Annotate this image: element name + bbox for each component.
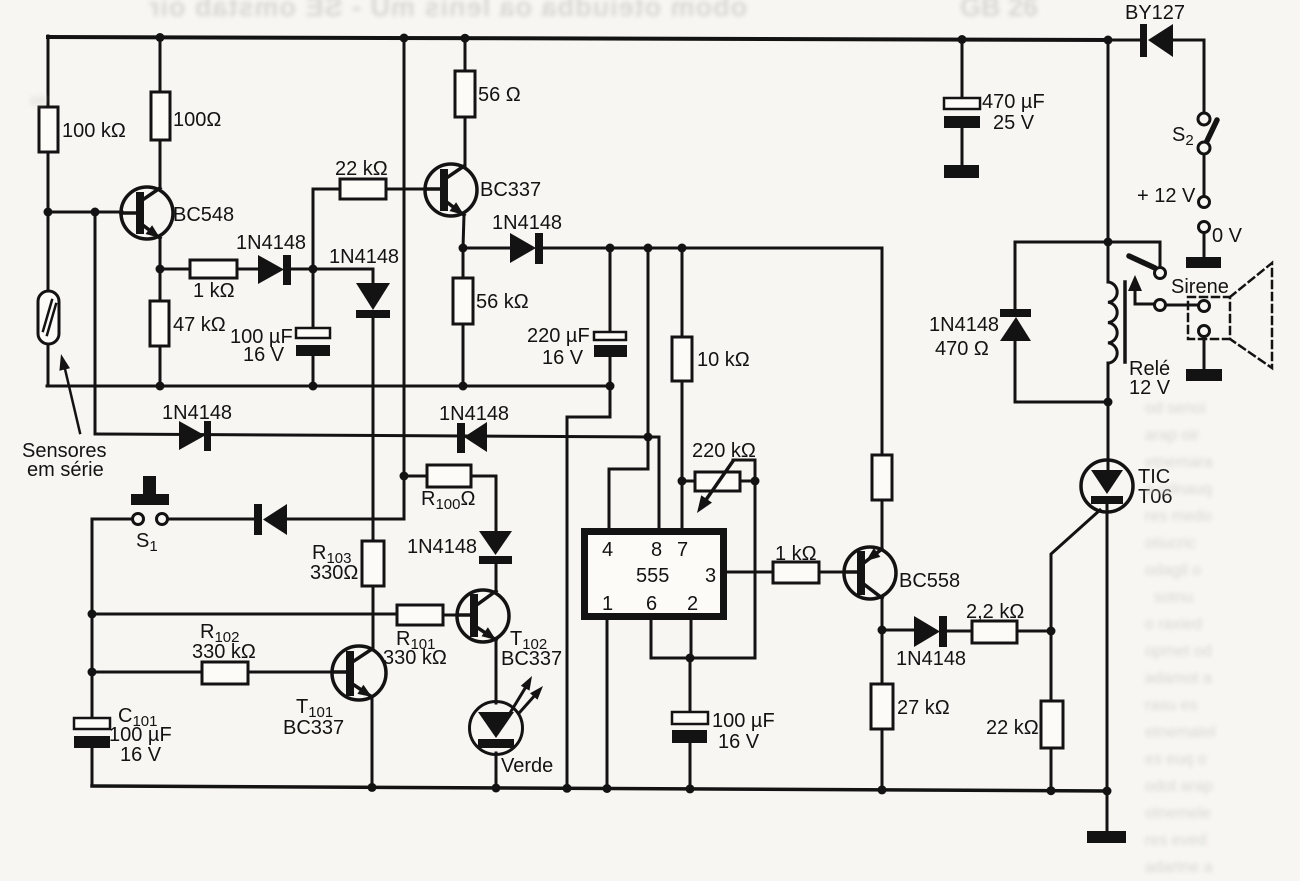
svg-text:555: 555 — [636, 565, 669, 587]
wire top supply rail — [48, 37, 1110, 40]
wire relay flyback diode bottom — [1015, 341, 1108, 402]
relay contact lever — [1129, 256, 1155, 268]
resistor 56 kOhm — [453, 278, 473, 324]
svg-text:BC558: BC558 — [899, 570, 960, 592]
wire 22k left riser — [313, 189, 340, 269]
wire left column top (100k feed) — [47, 36, 50, 107]
relay contact terminals — [1155, 268, 1166, 311]
wire left column mid (100k to sensor) — [47, 152, 50, 291]
resistor 2,2 kOhm — [972, 621, 1017, 643]
junction diode out node x313 — [309, 265, 318, 274]
wire 100ohm to BC548 collector — [159, 140, 162, 190]
transistor BC558 — [844, 547, 896, 599]
wire x92 left column — [91, 519, 94, 786]
switch S2 — [1198, 113, 1217, 154]
wire 1k to BC558 base — [819, 571, 845, 574]
diode 1N4148 after 1k — [258, 255, 291, 285]
wire node to vertical diode — [313, 269, 373, 283]
wire R100 leads — [404, 476, 496, 531]
junction bottom rail x373 — [368, 783, 377, 792]
svg-text:25 V: 25 V — [993, 112, 1035, 134]
wire node to cap 100uF-16V — [689, 658, 692, 712]
svg-text:R100Ω: R100Ω — [421, 488, 475, 513]
diode BY127 — [1140, 24, 1173, 57]
resistor 1 kOhm (555 output) — [773, 562, 819, 583]
junction y248 x648 — [644, 244, 653, 253]
wire 470uF to ground symbol — [961, 128, 964, 166]
resistor R101 330 kOhm — [397, 605, 443, 625]
relay coil — [1108, 282, 1125, 363]
svg-text:1N4148: 1N4148 — [929, 314, 999, 336]
wire 22k right top — [1050, 631, 1053, 701]
junction mid rail x610 — [606, 382, 615, 391]
wire 10k to pot node — [681, 381, 684, 481]
resistor 10 kOhm — [672, 337, 692, 381]
arrow sensores em serie — [59, 354, 80, 433]
junction y248 x610 — [606, 244, 615, 253]
wire y630 line segments — [882, 630, 1051, 631]
resistor 1 kOhm (BC548 emitter) — [190, 260, 237, 278]
junction mid rail x160 — [156, 382, 165, 391]
svg-text:16 V: 16 V — [542, 347, 584, 369]
capacitor 470uF 25V — [944, 98, 980, 128]
svg-text:BC548: BC548 — [173, 204, 234, 226]
junction mid rail x463 — [459, 382, 468, 391]
junction top rail x962 — [958, 35, 967, 44]
svg-text:Verde: Verde — [501, 755, 553, 777]
wire pin2 down — [690, 620, 693, 658]
wire LED cathode to rail — [495, 753, 498, 789]
svg-text:330 kΩ: 330 kΩ — [192, 641, 256, 663]
junction relay feed x1108 — [1104, 238, 1113, 247]
svg-text:S1: S1 — [136, 530, 158, 555]
transistor T101 BC337 — [332, 646, 386, 700]
svg-text:1N4148: 1N4148 — [896, 648, 966, 670]
wire pot right to pin2 node — [690, 481, 755, 658]
svg-text:BC337: BC337 — [501, 648, 562, 670]
junction base line x95 — [91, 208, 100, 217]
wire node to pin8 — [648, 437, 659, 528]
junction mid rail x313 — [309, 382, 318, 391]
wire BC548 emitter drop — [159, 238, 162, 269]
junction y248 x463 — [459, 244, 468, 253]
ground symbol sirene — [1186, 369, 1222, 381]
ground symbol 0V — [1186, 257, 1221, 268]
resistor 47 kOhm — [150, 301, 169, 346]
faint bleed-through paragraph right margin (decorative) — [1145, 395, 1215, 881]
svg-text:1N4148: 1N4148 — [236, 232, 306, 254]
thyristor TIC T06 — [1081, 460, 1133, 512]
wire ground step x610 to x567 — [567, 386, 610, 789]
resistor R103 330 Ohm — [362, 541, 384, 586]
wire left column below sensor — [47, 344, 50, 386]
sensor reed capsule — [38, 291, 59, 344]
junction bottom rail x882 — [878, 785, 887, 794]
transistor BC548 — [121, 187, 173, 239]
wire sirene lower terminal to ground — [1203, 336, 1206, 370]
wire 56k bottom — [462, 324, 465, 386]
wire 56ohm to BC337 collector — [464, 117, 467, 167]
resistor 100 Ohm — [151, 92, 170, 140]
wire relay top contact feed — [1015, 242, 1160, 268]
svg-text:1N4148: 1N4148 — [439, 403, 509, 425]
diode 1N4148 BC558 output — [914, 616, 947, 647]
svg-text:BC337: BC337 — [283, 717, 344, 739]
svg-text:100 µF: 100 µF — [109, 724, 172, 746]
wire pin6 jog — [651, 620, 690, 658]
wire S2 to +12V terminal — [1203, 154, 1206, 196]
junction x92 y672 — [88, 668, 97, 677]
svg-text:7: 7 — [677, 539, 688, 561]
junction base line x48 — [44, 208, 53, 217]
svg-text:100 µF: 100 µF — [712, 710, 775, 732]
svg-text:22 kΩ: 22 kΩ — [986, 717, 1039, 739]
svg-text:3: 3 — [705, 565, 716, 587]
IC 555 box — [585, 532, 724, 617]
junction pot right — [751, 477, 760, 486]
wire S1 left lead — [92, 518, 133, 521]
svg-text:1 kΩ: 1 kΩ — [775, 543, 817, 565]
wire relay coil bottom — [1107, 363, 1110, 402]
junction top rail x404 — [400, 34, 409, 43]
wire R101 line y614 — [92, 614, 458, 615]
wire 47k bottom — [159, 346, 162, 386]
wire BC337 emitter drop — [463, 215, 464, 248]
diode 1N4148 latch line pointing left — [457, 422, 487, 453]
svg-text:0 V: 0 V — [1212, 225, 1243, 247]
junction bottom rail x607 — [603, 784, 612, 793]
wire 220uF bottom — [609, 357, 612, 386]
svg-text:330 kΩ: 330 kΩ — [383, 647, 447, 669]
junction bottom rail x567 — [563, 784, 572, 793]
wire TIC cathode to rail — [1106, 511, 1109, 791]
svg-text:100Ω: 100Ω — [173, 109, 221, 131]
wire T101 emitter to ground rail — [371, 697, 374, 788]
resistor 22 kOhm — [340, 179, 386, 199]
wire 220uF top — [609, 248, 612, 332]
wire diode to T102 collector — [495, 562, 498, 591]
svg-text:BC337: BC337 — [480, 179, 541, 201]
svg-text:1 kΩ: 1 kΩ — [193, 280, 235, 302]
junction pin2 node — [686, 654, 695, 663]
svg-text:em série: em série — [27, 459, 104, 481]
wire 470uF top feed — [961, 39, 964, 98]
svg-text:1N4148: 1N4148 — [329, 246, 399, 268]
svg-text:1N4148: 1N4148 — [407, 536, 477, 558]
svg-text:470 Ω: 470 Ω — [935, 338, 989, 360]
diode 1N4148 after BC337 — [510, 233, 543, 264]
wire 47k top — [159, 269, 162, 301]
wire cap bottom to rail — [689, 743, 692, 790]
wire mid ground rail — [47, 385, 610, 388]
capacitor 220uF 16V — [594, 332, 627, 357]
junction 2k2 gate node — [1047, 627, 1056, 636]
wire pin1 to ground — [606, 620, 609, 790]
potentiometer wiper arrow — [697, 461, 733, 513]
wire x1108 from BY127 node down — [1107, 40, 1110, 242]
ground symbol 470uF — [944, 165, 979, 178]
resistor BC558 emitter — [872, 455, 892, 500]
svg-text:56 kΩ: 56 kΩ — [476, 291, 529, 313]
svg-text:2,2 kΩ: 2,2 kΩ — [966, 601, 1024, 623]
junction bottom rail x1051 — [1047, 786, 1056, 795]
junction x92 y614 — [88, 610, 97, 619]
svg-text:2: 2 — [687, 593, 698, 615]
junction y437 x648 — [644, 433, 653, 442]
capacitor 100uF 16V (latch) — [296, 328, 330, 356]
wire 27k top — [881, 630, 884, 684]
wire 22k right bottom — [1050, 748, 1053, 791]
wire relay flyback diode top — [1014, 242, 1017, 309]
junction top rail x1108 — [1104, 36, 1113, 45]
wire BY127 anode to S2 — [1173, 40, 1204, 113]
wire 56ohm top — [464, 36, 467, 71]
diode 1N4148 vertical x373 — [356, 283, 390, 318]
svg-text:+ 12 V: + 12 V — [1137, 185, 1196, 207]
wire pot right lead — [740, 480, 755, 483]
wire T102 emitter to LED — [495, 641, 498, 703]
svg-text:470 µF: 470 µF — [982, 91, 1045, 113]
wire 56k top — [462, 248, 465, 278]
wire node to cap100uF — [312, 269, 315, 328]
wire pot node to pin7 — [681, 481, 684, 528]
svg-text:220 µF: 220 µF — [527, 325, 590, 347]
junction bottom rail x496 — [492, 784, 501, 793]
svg-text:220 kΩ: 220 kΩ — [692, 440, 756, 462]
relay armature arrow — [1128, 275, 1142, 291]
sirene speaker — [1188, 263, 1272, 368]
svg-text:8: 8 — [651, 539, 662, 561]
wire 22k to BC337 base — [386, 188, 427, 191]
wire R103 to T101 collector — [372, 586, 375, 650]
resistor R100 — [427, 465, 471, 487]
diode S1 line pointing left — [254, 504, 287, 535]
capacitor 100uF 16V (555 pin2) — [672, 712, 708, 743]
svg-text:1: 1 — [602, 593, 613, 615]
wire sensor diode line y435 — [95, 434, 649, 437]
wire S1 to diode — [168, 518, 257, 521]
junction bottom rail x690 — [686, 784, 695, 793]
wire relay coil top feed — [1107, 242, 1110, 282]
capacitor C101 100uF 16V — [74, 718, 110, 748]
wire relay armature link — [1135, 291, 1155, 304]
resistor 22 kOhm (gate) — [1041, 701, 1063, 748]
junction pot left pin7 — [678, 477, 687, 486]
wire vertical diode to R103 — [372, 317, 375, 541]
wire 1k line segments — [160, 268, 313, 271]
wire 100ohm top feed — [159, 36, 162, 92]
potentiometer 220 kOhm body — [695, 472, 740, 491]
svg-text:100 kΩ: 100 kΩ — [62, 120, 126, 142]
svg-text:1N4148: 1N4148 — [162, 402, 232, 424]
wire pot wiper link — [733, 460, 755, 481]
wire node step to pin4 — [609, 437, 648, 528]
svg-text:56 Ω: 56 Ω — [478, 84, 521, 106]
junction relay coil bottom — [1104, 398, 1113, 407]
wire pin3 output — [727, 571, 773, 574]
push button S1 — [131, 476, 169, 525]
transistor T102 BC337 — [457, 590, 509, 642]
ground symbol main rail — [1087, 831, 1126, 843]
svg-text:330Ω: 330Ω — [310, 562, 358, 584]
svg-text:16 V: 16 V — [243, 344, 285, 366]
wire R102 line y672 — [92, 671, 333, 674]
terminal +12V — [1199, 197, 1210, 208]
svg-text:S2: S2 — [1172, 124, 1194, 149]
terminal 0V — [1199, 222, 1210, 233]
junction top rail x160 — [156, 33, 165, 42]
junction bottom rail x1107 — [1103, 787, 1112, 796]
transistor BC337 (latch) — [425, 164, 477, 216]
diode 1N4148 sensor line — [179, 421, 211, 451]
wire x404 long drop — [403, 37, 406, 519]
svg-text:47 kΩ: 47 kΩ — [173, 314, 226, 336]
diode 1N4148 relay flyback — [1000, 309, 1031, 341]
wire TIC gate — [1051, 510, 1100, 631]
svg-text:6: 6 — [646, 593, 657, 615]
junction top rail x465 — [461, 34, 470, 43]
wire relay NO contact to sirene — [1166, 304, 1199, 307]
svg-text:1N4148: 1N4148 — [492, 212, 562, 234]
faint page bleed-through heading (decorative) — [148, 0, 747, 23]
wire y248 latch line — [463, 248, 882, 455]
wire BC558 emitter resistor lead — [881, 500, 884, 549]
junction y248 x682 — [678, 244, 687, 253]
junction emitter 1k node — [156, 265, 165, 274]
LED Verde — [470, 676, 544, 755]
svg-text:10 kΩ: 10 kΩ — [697, 349, 750, 371]
wire diode to x404 corner — [288, 518, 404, 521]
wire cap100uF bottom — [312, 356, 315, 386]
wire x648 drop to node — [647, 248, 650, 437]
resistor 100 kOhm — [39, 107, 58, 152]
wire BC548 base line — [48, 211, 122, 214]
wire 0V terminal to ground — [1203, 233, 1206, 258]
diode 1N4148 vertical below R100 — [479, 531, 512, 564]
svg-text:16 V: 16 V — [120, 744, 162, 766]
svg-text:16 V: 16 V — [718, 731, 760, 753]
junction R100 node — [400, 472, 409, 481]
svg-text:BY127: BY127 — [1125, 2, 1185, 24]
svg-text:Sirene: Sirene — [1171, 276, 1229, 298]
wire x95 drop from base node — [94, 212, 97, 434]
wire relay node to TIC anode — [1107, 402, 1110, 462]
wire BC558 collector drop — [881, 598, 884, 630]
resistor 27 kOhm — [871, 684, 893, 729]
wire pot left lead — [682, 480, 695, 483]
svg-text:22 kΩ: 22 kΩ — [335, 158, 388, 180]
wire rail to ground symbol — [1106, 791, 1109, 831]
wire rail to BY127 cathode — [1108, 39, 1141, 42]
wire x682 drop to 10k — [681, 248, 684, 337]
junction BC558 collector node — [878, 626, 887, 635]
svg-text:4: 4 — [602, 539, 613, 561]
resistor 56 Ohm — [455, 71, 475, 117]
wire 27k bottom — [881, 729, 884, 790]
wire bottom ground rail — [92, 786, 1107, 791]
resistor R102 330 kOhm — [202, 662, 248, 684]
svg-text:27 kΩ: 27 kΩ — [897, 697, 950, 719]
